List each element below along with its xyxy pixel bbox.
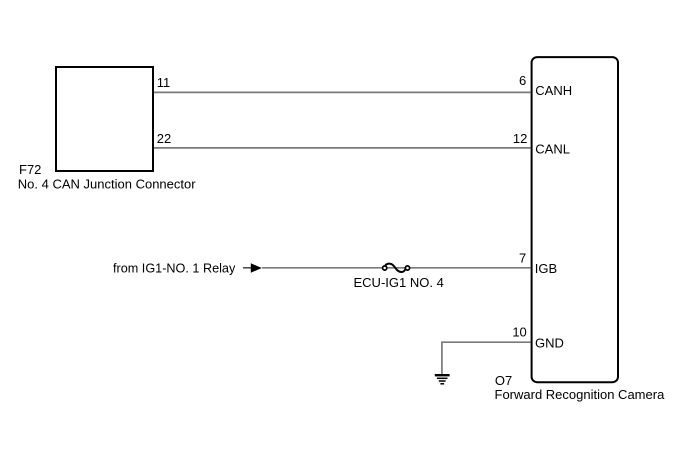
- svg-text:CANL: CANL: [535, 141, 570, 156]
- svg-text:GND: GND: [535, 336, 564, 351]
- svg-text:ECU-IG1 NO. 4: ECU-IG1 NO. 4: [354, 275, 444, 290]
- svg-text:F72: F72: [19, 162, 41, 177]
- svg-text:No. 4 CAN Junction Connector: No. 4 CAN Junction Connector: [18, 176, 196, 191]
- svg-text:10: 10: [512, 324, 526, 339]
- svg-text:CANH: CANH: [535, 83, 572, 98]
- svg-text:6: 6: [519, 73, 526, 88]
- svg-text:from IG1-NO. 1 Relay: from IG1-NO. 1 Relay: [113, 261, 236, 276]
- svg-text:22: 22: [157, 131, 171, 146]
- svg-text:7: 7: [519, 250, 526, 265]
- svg-text:12: 12: [513, 131, 527, 146]
- svg-text:11: 11: [157, 75, 171, 90]
- svg-text:IGB: IGB: [535, 261, 557, 276]
- svg-text:Forward Recognition Camera: Forward Recognition Camera: [495, 387, 666, 402]
- svg-text:O7: O7: [495, 373, 512, 388]
